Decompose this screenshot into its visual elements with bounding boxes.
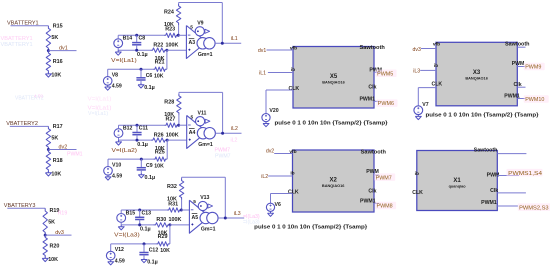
svg-text:5K: 5K — [51, 35, 58, 41]
output wire — [218, 217, 244, 219]
svg-text:quanqiao: quanqiao — [449, 185, 467, 189]
pulse source V7 — [414, 106, 423, 115]
junction — [177, 124, 180, 127]
svg-text:V12: V12 — [115, 247, 124, 253]
svg-text:CLK: CLK — [412, 190, 423, 196]
B source B15 — [117, 214, 126, 223]
svg-text:PWM9: PWM9 — [525, 65, 541, 71]
svg-text:10K: 10K — [160, 248, 170, 254]
capacitor C12 0.1u — [143, 244, 145, 253]
svg-text:R17: R17 — [53, 124, 63, 130]
svg-text:ib: ib — [415, 171, 419, 177]
B source B14 — [114, 39, 123, 48]
svg-text:C6: C6 — [146, 73, 153, 79]
svg-text:CLK: CLK — [288, 86, 299, 92]
wire — [274, 153, 292, 155]
svg-text:CLK: CLK — [288, 189, 299, 195]
svg-text:C13: C13 — [142, 210, 152, 216]
wire — [421, 48, 436, 50]
junction — [221, 132, 224, 135]
svg-text:R25: R25 — [155, 149, 165, 155]
svg-text:V=I(La1): V=I(La1) — [88, 111, 108, 117]
svg-text:vfb: vfb — [433, 41, 440, 47]
svg-text:PWM1: PWM1 — [360, 198, 376, 204]
capacitor C6 0.1u — [140, 69, 142, 78]
svg-text:iL3: iL3 — [413, 68, 420, 74]
svg-text:PWMS2,S3: PWMS2,S3 — [519, 206, 549, 212]
svg-text:iL3: iL3 — [234, 211, 241, 217]
ground — [417, 115, 419, 117]
op-amp A5 — [189, 200, 209, 233]
svg-text:A5: A5 — [192, 215, 199, 221]
svg-text:BANQIAO16: BANQIAO16 — [322, 184, 345, 188]
wire — [118, 34, 164, 36]
svg-text:X2: X2 — [330, 178, 338, 184]
svg-text:C8: C8 — [139, 36, 146, 42]
svg-text:PWM7: PWM7 — [376, 176, 392, 182]
output wire — [215, 132, 241, 134]
junction — [136, 139, 139, 142]
pin wire — [517, 86, 525, 88]
svg-text:dv2: dv2 — [266, 149, 274, 155]
svg-text:X5: X5 — [330, 74, 338, 80]
resistor R27 — [164, 123, 178, 127]
svg-text:Sawtooth: Sawtooth — [474, 147, 498, 153]
svg-text:B12: B12 — [123, 126, 133, 132]
svg-text:5K: 5K — [51, 135, 58, 141]
svg-text:4.59: 4.59 — [34, 94, 43, 99]
junction — [138, 209, 141, 212]
capacitor C9 0.1u — [140, 159, 142, 168]
svg-text:R20: R20 — [50, 244, 60, 250]
svg-text:R18: R18 — [53, 158, 63, 164]
svg-text:R31: R31 — [168, 201, 178, 207]
subcircuit block X2 — [293, 150, 375, 212]
junction — [140, 158, 143, 161]
svg-text:C11: C11 — [139, 126, 148, 132]
svg-text:V=I(La1): V=I(La1) — [111, 58, 137, 64]
subcircuit block X3 — [436, 42, 517, 106]
svg-text:V10: V10 — [112, 162, 121, 168]
wire — [119, 124, 165, 126]
wire CLK — [271, 193, 293, 195]
svg-text:V9: V9 — [197, 21, 203, 27]
junction — [135, 49, 138, 52]
wire to + input — [167, 49, 187, 51]
svg-text:Sawtooth: Sawtooth — [360, 45, 385, 51]
svg-text:4.59: 4.59 — [112, 174, 122, 180]
svg-text:C9: C9 — [146, 163, 153, 169]
svg-text:4.59: 4.59 — [112, 84, 122, 90]
svg-text:A4: A4 — [189, 130, 196, 136]
pulse source V20 — [262, 114, 270, 122]
svg-text:iL2: iL2 — [231, 138, 238, 144]
svg-text:B15: B15 — [126, 210, 136, 216]
ground — [140, 173, 142, 175]
svg-text:R21: R21 — [155, 60, 165, 66]
node dv1 — [47, 49, 50, 52]
node dv3 — [44, 234, 47, 237]
svg-text:5: 5 — [193, 199, 196, 205]
resistor R26 100K — [151, 138, 167, 142]
source V8 4.59 — [107, 69, 109, 76]
svg-text:V20: V20 — [269, 108, 278, 114]
svg-text:V=I(La3): V=I(La3) — [114, 233, 140, 239]
op-amp A3 — [186, 26, 206, 59]
svg-text:R19: R19 — [58, 211, 68, 217]
VCCS Gm=1 — [197, 128, 208, 139]
resistor R22 100K — [151, 48, 167, 52]
net label PWMS2,S3 — [518, 203, 550, 211]
resistor R16 10K — [46, 51, 50, 74]
svg-text:0.1µ: 0.1µ — [137, 52, 148, 58]
wire — [45, 234, 71, 236]
source V12 4.59 — [110, 244, 112, 251]
svg-text:V13: V13 — [200, 195, 209, 201]
ground — [120, 225, 122, 227]
net label PWM10 — [524, 95, 549, 103]
wire to - input — [179, 124, 187, 126]
junction — [138, 223, 141, 226]
B source B12 — [114, 129, 123, 138]
svg-text:Clk: Clk — [368, 188, 376, 194]
junction — [165, 49, 168, 52]
feedback wire — [178, 3, 180, 4]
wire CLK — [418, 87, 436, 89]
ground — [118, 140, 120, 142]
junction — [224, 217, 227, 220]
net label PWM8 — [375, 202, 396, 210]
svg-text:vfb: vfb — [289, 149, 296, 155]
wire — [420, 69, 436, 71]
wire — [108, 158, 153, 160]
svg-text:Gm=1: Gm=1 — [201, 227, 216, 233]
svg-text:Sawtooth: Sawtooth — [505, 41, 530, 47]
svg-text:R26: R26 — [154, 132, 164, 138]
subcircuit block X5 — [293, 47, 374, 109]
ground — [140, 83, 142, 85]
wire — [7, 207, 45, 209]
wire — [268, 175, 292, 177]
svg-text:R15: R15 — [53, 24, 63, 30]
output wire — [215, 42, 241, 44]
svg-text:V6: V6 — [275, 202, 281, 208]
subcircuit block X1 — [417, 151, 498, 211]
wire to - input — [178, 34, 186, 36]
svg-text:10K: 10K — [154, 73, 164, 79]
wire — [48, 50, 76, 52]
feedback wire — [178, 92, 180, 93]
resistor R15 5K — [46, 26, 50, 51]
svg-text:V8: V8 — [112, 73, 118, 79]
net label PWM5 — [376, 70, 397, 78]
svg-text:ib: ib — [434, 63, 438, 69]
svg-text:X1: X1 — [453, 178, 461, 184]
pin wire — [497, 153, 526, 155]
resistor R20 10K — [43, 235, 47, 258]
wire — [121, 209, 167, 211]
svg-text:iL1: iL1 — [231, 36, 238, 42]
pin wire — [497, 175, 519, 177]
wire — [10, 125, 49, 127]
resistor R19 5K — [43, 208, 47, 235]
svg-text:BANQIAO16: BANQIAO16 — [322, 81, 345, 85]
capacitor C13 0.1u — [139, 210, 141, 217]
svg-text:iL1: iL1 — [259, 71, 266, 77]
wire — [267, 49, 294, 51]
svg-text:5K: 5K — [48, 220, 55, 226]
svg-text:0.1µ: 0.1µ — [137, 142, 148, 148]
junction — [180, 209, 183, 212]
svg-text:100K: 100K — [169, 217, 182, 223]
pin wire — [497, 192, 526, 194]
ground — [47, 72, 49, 74]
svg-text:PWM1: PWM1 — [481, 200, 497, 206]
svg-text:PWM10: PWM10 — [525, 97, 544, 103]
junction — [143, 242, 146, 245]
feedback wire — [181, 177, 183, 178]
svg-text:PWM5: PWM5 — [377, 71, 393, 77]
wire — [108, 68, 153, 70]
ground — [44, 257, 46, 259]
svg-text:Gm=1: Gm=1 — [198, 142, 213, 148]
svg-text:10K: 10K — [51, 73, 61, 79]
ground — [143, 258, 145, 260]
ground — [47, 171, 49, 173]
svg-text:R27: R27 — [166, 117, 176, 123]
net label PWM7 — [374, 173, 395, 181]
svg-text:BANQIAO16: BANQIAO16 — [465, 77, 488, 81]
source V10 4.59 — [107, 159, 109, 166]
svg-text:PWM7: PWM7 — [215, 154, 231, 160]
capacitor C11 0.1u — [136, 125, 138, 132]
svg-text:VBATTERY1: VBATTERY1 — [1, 36, 33, 42]
svg-text:iL2: iL2 — [231, 126, 238, 132]
ground — [110, 260, 112, 262]
junction — [135, 34, 138, 37]
svg-text:C12: C12 — [149, 248, 159, 254]
svg-text:Clk: Clk — [490, 188, 498, 194]
wire — [48, 149, 76, 151]
wire to - input — [181, 209, 189, 211]
svg-text:iL2: iL2 — [261, 174, 268, 180]
svg-text:R16: R16 — [53, 59, 63, 65]
wire — [111, 243, 156, 245]
svg-text:PWM1: PWM1 — [67, 152, 83, 158]
wire CLK — [266, 89, 293, 91]
junction — [168, 223, 171, 226]
junction — [177, 34, 180, 37]
svg-text:vfb: vfb — [290, 46, 297, 52]
ground — [107, 85, 109, 87]
svg-text:PWM8: PWM8 — [377, 204, 393, 210]
svg-text:R29: R29 — [158, 234, 168, 240]
svg-text:10K: 10K — [51, 172, 61, 178]
svg-text:PWM6: PWM6 — [378, 101, 394, 107]
svg-text:PWMS1,S4: PWMS1,S4 — [508, 171, 542, 177]
svg-text:R24: R24 — [164, 9, 174, 15]
op-amp A4 — [187, 115, 207, 148]
ground — [117, 50, 119, 52]
wire — [11, 25, 49, 27]
svg-text:0.1µ: 0.1µ — [144, 85, 155, 91]
svg-text:pulse 0 1 0 10n 10n {Tsamp/2}: pulse 0 1 0 10n 10n {Tsamp/2} {Tsamp} — [254, 225, 368, 231]
svg-text:R32: R32 — [167, 184, 177, 190]
resistor R31 — [167, 208, 181, 212]
svg-text:0.1µ: 0.1µ — [147, 260, 158, 266]
svg-text:dv3: dv3 — [413, 47, 421, 53]
svg-text:R22: R22 — [153, 42, 163, 48]
resistor R18 10K — [46, 150, 50, 173]
svg-text:VBATTERY1: VBATTERY1 — [1, 42, 33, 48]
svg-text:V7: V7 — [422, 102, 428, 108]
wire to + input — [167, 139, 187, 141]
svg-text:dv1: dv1 — [258, 48, 266, 54]
pulse source V6 — [266, 203, 274, 211]
svg-text:CLK: CLK — [431, 82, 442, 88]
ground — [265, 122, 267, 124]
junction — [140, 68, 143, 71]
node dv2 — [47, 148, 50, 151]
svg-text:X3: X3 — [473, 70, 481, 76]
resistor R17 5K — [46, 126, 50, 149]
svg-text:V=I(La1): V=I(La1) — [88, 97, 112, 103]
pin wire — [517, 46, 525, 48]
resistor R23 — [164, 33, 178, 37]
svg-text:10K: 10K — [154, 163, 164, 169]
ground rail wire — [119, 139, 151, 141]
svg-text:R30: R30 — [156, 217, 166, 223]
pin wire — [497, 205, 518, 207]
ground rail wire — [121, 224, 153, 226]
svg-text:PWM1: PWM1 — [359, 97, 375, 103]
resistor R30 100K — [154, 223, 170, 227]
svg-text:R23: R23 — [165, 27, 175, 33]
svg-text:Gm=1: Gm=1 — [198, 52, 213, 58]
svg-text:4.59: 4.59 — [115, 258, 125, 264]
ground — [107, 175, 109, 177]
svg-text:R28: R28 — [164, 99, 174, 105]
junction — [221, 42, 224, 45]
ground rail wire — [118, 49, 150, 51]
svg-text:100K: 100K — [166, 132, 179, 138]
svg-text:V=I(La2): V=I(La2) — [112, 148, 138, 154]
svg-text:V11: V11 — [198, 110, 207, 116]
svg-text:Clk: Clk — [368, 85, 376, 91]
junction — [166, 139, 169, 142]
wire — [268, 72, 293, 74]
svg-text:B14: B14 — [123, 36, 133, 42]
net label PWM9 — [524, 63, 545, 71]
svg-text:10K: 10K — [48, 257, 58, 263]
svg-text:0.1µ: 0.1µ — [145, 175, 156, 181]
net label PWM6 — [377, 99, 398, 107]
svg-text:pulse 0 1 0 10n 10n {Tsamp/2}: pulse 0 1 0 10n 10n {Tsamp/2} {Tsamp} — [426, 113, 540, 119]
capacitor C8 0.1u — [136, 35, 138, 42]
net label PWMS1,S4 — [507, 169, 543, 177]
svg-text:pulse 0 1 0 10n 10n {Tsamp/2}: pulse 0 1 0 10n 10n {Tsamp/2} {Tsamp} — [275, 120, 389, 126]
junction — [136, 124, 139, 127]
VCCS Gm=1 — [197, 38, 208, 49]
svg-text:A3: A3 — [189, 40, 196, 46]
svg-text:Sawtooth: Sawtooth — [361, 150, 386, 156]
svg-text:5: 5 — [191, 114, 194, 120]
svg-text:5: 5 — [190, 24, 193, 30]
svg-text:0.1µ: 0.1µ — [140, 227, 151, 233]
VCCS Gm=1 — [200, 212, 211, 223]
svg-text:100K: 100K — [166, 42, 179, 48]
wire to + input — [170, 224, 190, 226]
ground — [270, 211, 272, 213]
